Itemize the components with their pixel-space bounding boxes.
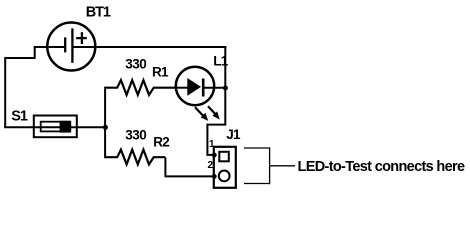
svg-text:1: 1 [209,139,215,150]
svg-text:J1: J1 [226,127,241,142]
svg-text:330: 330 [125,127,146,142]
node junction dot LED cathode [223,86,228,91]
svg-text:BT1: BT1 [86,5,111,21]
LED light arrow 2 [208,106,220,119]
resistor R2 [105,150,165,165]
wire battery positive to top right corner [95,46,226,48]
wire callout bracket bottom [244,183,270,185]
svg-text:2: 2 [208,160,214,171]
wire right vertical down [207,46,225,155]
LED L1 [176,67,226,105]
LED light arrow 1 [195,107,208,121]
wire callout leader to text [270,165,295,167]
wire battery negative to left rail [5,47,47,127]
wire callout bracket vertical [269,147,271,184]
svg-text:330: 330 [125,57,146,72]
switch S1 [34,116,77,138]
svg-text:R1: R1 [152,65,169,80]
resistor R1 [105,80,176,95]
node pin 1 junction dot [212,153,217,158]
wire R2 to J1 pin 2 [165,157,214,176]
wire vertical branch R1/R2 [104,87,106,159]
svg-text:L1: L1 [213,54,228,69]
node pin 2 junction dot [212,174,217,179]
svg-text:LED-to-Test connects here: LED-to-Test connects here [298,159,466,175]
battery BT1 [47,23,95,71]
svg-text:S1: S1 [11,109,28,125]
connector J1 [214,147,236,188]
wire left rail to switch [4,126,60,128]
wire callout bracket top [244,147,270,149]
svg-text:R2: R2 [153,135,169,150]
node junction dot after S1 [103,125,108,130]
wire switch to junction [71,126,107,128]
